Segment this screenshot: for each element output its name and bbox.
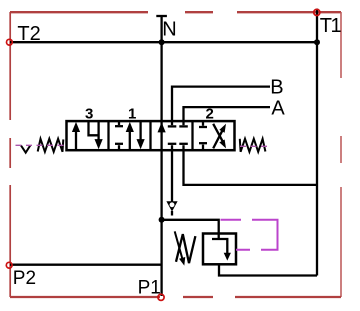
neutral blocked port B bottom (168, 144, 177, 150)
valve body envelope right (dashed red) (340, 12, 342, 297)
relief valve RV1 body (203, 234, 236, 265)
pilot line (magenta dashed) from relief corner (221, 220, 278, 250)
pilot line left (magenta dashed) (16, 144, 67, 146)
port P2 circle (6, 262, 12, 268)
position 1 blocked port top (115, 122, 123, 127)
wire: port A line (184, 107, 271, 121)
wire: relief valve outlet to T1 (219, 264, 317, 275)
valve body envelope top (dashed red) (10, 11, 341, 13)
svg-text:P2: P2 (13, 268, 36, 289)
wire: relief valve feed (162, 220, 219, 234)
svg-text:B: B (270, 76, 283, 98)
valve cell divider 1 (107, 121, 109, 150)
wire: port B line (172, 87, 270, 121)
port T1 circle (314, 9, 320, 15)
svg-text:T1: T1 (320, 15, 342, 37)
wire: A-port lower run to T1 line (184, 150, 318, 185)
position 2 blocked port top (199, 122, 207, 128)
wire: tank rail T2-T1 (10, 41, 317, 43)
valve body envelope bottom (dashed red) (10, 296, 341, 298)
wire: P2 rail (10, 264, 162, 266)
wire: carry-over drop from valve (171, 150, 173, 202)
neutral blocked port A bottom (179, 144, 188, 150)
svg-text:A: A (271, 98, 285, 120)
lever detent notch left (21, 146, 30, 153)
pilot line right (magenta dashed) (240, 145, 269, 147)
spring left (black zigzag) (38, 139, 64, 152)
position 2 crossed flow arrows (213, 124, 226, 149)
position 1 flow arrow down (137, 122, 145, 150)
neutral position open-centre arrow on N line (158, 122, 166, 132)
valve cell divider 2 (149, 121, 151, 150)
svg-text:P1: P1 (138, 277, 161, 298)
wire: N vertical line (through valve to P1) (160, 16, 162, 296)
valve cell divider 3 (191, 121, 193, 150)
relief valve adjustment arrow (175, 231, 186, 265)
svg-text:3: 3 (85, 105, 93, 122)
position 1 blocked port bottom (115, 144, 123, 150)
neutral blocked port B top (168, 122, 177, 127)
port T2 circle (6, 39, 12, 45)
relief valve internal flow path (212, 234, 231, 261)
port N top cap (156, 15, 167, 17)
position 3 flow arrow up (72, 122, 80, 150)
node: relief tee junction on P1 line (159, 217, 165, 223)
spring right (black zigzag) (240, 139, 266, 152)
carry-over flow symbol (triangle with vent hole) (166, 201, 177, 215)
node: T1 junction on tank rail (314, 39, 320, 45)
directional valve DV1 outer body (67, 121, 235, 150)
position 3 return path (89, 122, 103, 150)
svg-text:T2: T2 (17, 23, 40, 45)
neutral blocked port A top (179, 122, 188, 127)
svg-text:1: 1 (128, 105, 136, 122)
relief valve adjustable spring (176, 234, 195, 263)
position 2 blocked port bottom (199, 143, 207, 150)
port P1 circle (158, 294, 164, 300)
wire: T1 vertical (316, 9, 318, 276)
valve body envelope left (dashed red) (9, 12, 11, 297)
svg-text:2: 2 (206, 105, 214, 122)
node: N junction on tank rail (159, 39, 165, 45)
position 1 flow arrow up (126, 122, 134, 150)
svg-text:N: N (162, 19, 176, 41)
